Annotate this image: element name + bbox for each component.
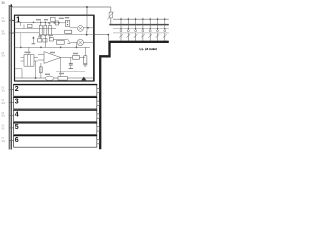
svg-text:30f: 30f (1, 127, 5, 130)
svg-text:30a: 30a (1, 20, 6, 23)
svg-text:30h: 30h (1, 55, 6, 58)
svg-text:30e: 30e (1, 115, 6, 118)
svg-text:30: 30 (1, 1, 5, 5)
svg-text:30b: 30b (1, 33, 6, 36)
svg-text:L1- L6 motor: L1- L6 motor (140, 47, 158, 51)
svg-text:5: 5 (15, 124, 19, 131)
svg-text:30g: 30g (1, 140, 6, 143)
svg-text:2: 2 (15, 86, 19, 93)
svg-text:3: 3 (15, 99, 19, 106)
svg-text:4: 4 (15, 111, 19, 118)
svg-text:6: 6 (15, 137, 19, 144)
svg-text:30d: 30d (1, 102, 6, 105)
